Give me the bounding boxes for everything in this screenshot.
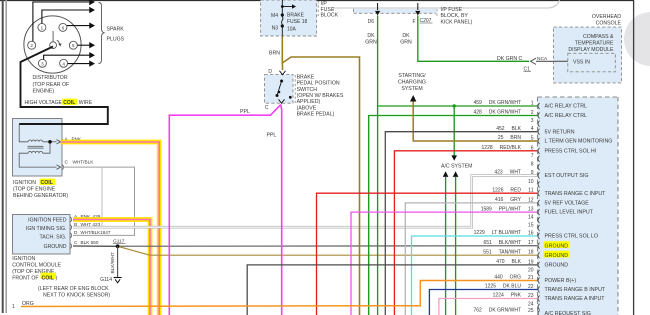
spark plug wire from terminal 1 xyxy=(42,10,91,23)
wire PPL left branch xyxy=(169,105,280,315)
coil junction dot A xyxy=(48,140,52,144)
spark plug wire from terminal 5 xyxy=(77,44,91,46)
svg-text:A/C REQUEST SIG: A/C REQUEST SIG xyxy=(545,311,591,315)
svg-text:WHT/BLK: WHT/BLK xyxy=(73,160,95,165)
svg-text:762 DK GRN/WHT: 762 DK GRN/WHT xyxy=(473,308,521,314)
svg-text:6: 6 xyxy=(531,145,534,151)
svg-text:BLOCK: BLOCK xyxy=(321,12,339,18)
svg-text:TACH. SIG.: TACH. SIG. xyxy=(40,235,67,241)
ignition coil box xyxy=(13,119,63,177)
PCM connector box xyxy=(538,97,619,315)
pin D6 arrow down xyxy=(377,3,379,10)
spark plug terminal 2 xyxy=(28,41,36,49)
spark plug terminal 5 xyxy=(69,41,77,49)
svg-text:A/C RELAY CTRL: A/C RELAY CTRL xyxy=(545,113,588,119)
svg-text:VSS IN: VSS IN xyxy=(573,59,590,65)
svg-text:CONTROL MODULE: CONTROL MODULE xyxy=(12,262,61,268)
svg-text:DK GRN: DK GRN xyxy=(497,56,517,62)
spark plug terminal 6 xyxy=(59,23,67,31)
coil core xyxy=(28,145,44,147)
svg-text:BLOCK, BY: BLOCK, BY xyxy=(441,13,469,19)
wire DK BLU 1225 row22 xyxy=(429,290,537,315)
wire BLK 470 row19 xyxy=(247,265,537,315)
wire BRN branch to right xyxy=(282,57,359,315)
svg-text:3: 3 xyxy=(531,118,534,124)
spark plug wire from terminal 2 xyxy=(33,2,91,41)
svg-text:CHARGING: CHARGING xyxy=(398,79,426,85)
distributor rotor center xyxy=(50,42,57,49)
wire ORG 440 row21 xyxy=(21,281,538,307)
svg-text:428 DK GRN/WHT: 428 DK GRN/WHT xyxy=(473,110,521,116)
A/C up arrow wires xyxy=(443,171,449,177)
svg-text:21: 21 xyxy=(528,275,534,281)
svg-text:TRANS RANGE A INPUT: TRANS RANGE A INPUT xyxy=(545,296,606,302)
svg-text:PPL: PPL xyxy=(240,109,250,115)
svg-text:25 BRN: 25 BRN xyxy=(498,135,521,141)
svg-text:1229 LT BLU/WHT: 1229 LT BLU/WHT xyxy=(474,230,521,236)
grey corner blob (UI) xyxy=(624,12,650,66)
svg-text:PRESS CTRL SOL HI: PRESS CTRL SOL HI xyxy=(545,148,597,154)
coil primary winding xyxy=(28,140,42,142)
svg-text:F: F xyxy=(412,19,415,25)
wire DK GRN/WHT row2 xyxy=(369,116,538,315)
left UI bar grey xyxy=(5,0,7,313)
svg-text:1: 1 xyxy=(531,101,534,107)
svg-text:PRESS CTRL SOL LO: PRESS CTRL SOL LO xyxy=(545,234,598,240)
svg-text:TRANS RANGE C INPUT: TRANS RANGE C INPUT xyxy=(545,191,607,197)
svg-text:1589 PPL/WHT: 1589 PPL/WHT xyxy=(481,206,521,212)
wire PPL down branch xyxy=(280,105,283,315)
svg-text:COIL: COIL xyxy=(63,100,75,106)
wire WHT/BLK 1847 coil-to-module xyxy=(61,167,135,235)
svg-text:L TERM GEN MONITORING: L TERM GEN MONITORING xyxy=(545,139,613,145)
svg-text:20: 20 xyxy=(528,268,534,274)
svg-text:SYSTEM: SYSTEM xyxy=(401,86,422,92)
svg-text:452 BLK: 452 BLK xyxy=(496,126,521,132)
svg-text:5: 5 xyxy=(531,136,534,142)
wire LT BLU/WHT 1229 row16 xyxy=(412,236,538,315)
svg-text:2: 2 xyxy=(531,110,534,116)
svg-text:NEXT TO KNOCK SENSOR): NEXT TO KNOCK SENSOR) xyxy=(43,292,110,298)
svg-text:440 ORG: 440 ORG xyxy=(494,275,521,281)
svg-text:D6: D6 xyxy=(368,19,375,25)
svg-text:G114: G114 xyxy=(100,277,112,283)
wire BLK 550 xyxy=(73,245,118,247)
svg-text:1847: 1847 xyxy=(100,230,111,235)
svg-text:APPLIED): APPLIED) xyxy=(297,99,321,105)
svg-text:551 TAN/WHT: 551 TAN/WHT xyxy=(483,249,521,255)
svg-text:BRAKE PEDAL): BRAKE PEDAL) xyxy=(297,112,335,118)
svg-text:COIL: COIL xyxy=(41,180,54,186)
wire PNK from coil A xyxy=(61,142,160,315)
svg-text:IGNITION: IGNITION xyxy=(12,256,35,262)
ground symbol G114 xyxy=(114,277,122,279)
svg-text:N3: N3 xyxy=(272,26,279,32)
left UI bar dark xyxy=(2,0,4,313)
module pin bracket xyxy=(71,217,72,222)
wire GRY 416 row12 xyxy=(405,203,537,315)
arrow up to starting system xyxy=(410,95,416,102)
pin C arrow xyxy=(279,99,285,103)
svg-text:(TOP REAR OF: (TOP REAR OF xyxy=(33,82,70,88)
svg-text:10A: 10A xyxy=(287,27,297,33)
fuse wire arrow top xyxy=(282,6,292,8)
svg-text:651 BLK/WHT: 651 BLK/WHT xyxy=(483,240,521,246)
I/P fuse block box xyxy=(261,0,317,36)
svg-text:OVERHEAD: OVERHEAD xyxy=(592,14,621,20)
wire TAN/WHT 551 to pin 18 xyxy=(118,246,538,255)
svg-text:M4: M4 xyxy=(271,13,278,19)
wire PNK 1224 row23 xyxy=(439,299,538,315)
svg-text:(LEFT REAR OF ENG BLOCK: (LEFT REAR OF ENG BLOCK xyxy=(38,286,109,292)
svg-text:WHT/BLK: WHT/BLK xyxy=(81,230,101,235)
svg-text:15: 15 xyxy=(528,223,534,229)
distributor body circle xyxy=(24,16,81,73)
svg-text:C: C xyxy=(519,56,523,62)
svg-text:CONSOLE: CONSOLE xyxy=(596,20,622,26)
I/P fuse block by kick panel box xyxy=(354,9,437,14)
brake switch box xyxy=(265,75,294,104)
svg-text:3: 3 xyxy=(41,61,44,66)
svg-text:1224 PNK: 1224 PNK xyxy=(493,293,522,299)
junction dot G117 xyxy=(116,244,120,248)
svg-text:IGNITION: IGNITION xyxy=(13,180,36,186)
svg-text:18: 18 xyxy=(528,250,534,256)
svg-text:1: 1 xyxy=(41,25,44,30)
svg-text:459 DK GRN/WHT: 459 DK GRN/WHT xyxy=(473,100,521,106)
svg-text:BRAKE: BRAKE xyxy=(287,13,305,19)
coil pin C bracket xyxy=(63,165,64,170)
svg-text:GRN: GRN xyxy=(365,40,377,46)
svg-text:SPARK: SPARK xyxy=(107,27,125,33)
pin D arrow xyxy=(280,71,286,75)
stub down to A/C SYSTEM xyxy=(453,106,455,156)
svg-text:12: 12 xyxy=(528,197,534,203)
wire WHT 423 module-to-pin9 xyxy=(73,176,538,228)
spark plug wire from terminal 3 xyxy=(44,55,91,59)
wire RED 1226 row11 xyxy=(317,193,538,315)
high voltage coil wire xyxy=(19,47,108,125)
svg-text:ORG: ORG xyxy=(22,301,34,307)
svg-text:GROUND: GROUND xyxy=(545,253,569,259)
svg-text:24: 24 xyxy=(528,301,534,307)
svg-text:PEDAL POSITION: PEDAL POSITION xyxy=(297,81,340,87)
svg-text:DK: DK xyxy=(402,33,410,39)
svg-text:TEMPERATURE: TEMPERATURE xyxy=(575,41,614,47)
svg-text:GROUND: GROUND xyxy=(545,243,569,249)
svg-text:A/C RELAY CTRL: A/C RELAY CTRL xyxy=(545,104,588,110)
svg-text:EST OUTPUT SIG: EST OUTPUT SIG xyxy=(545,173,589,179)
coil internal wires xyxy=(43,142,50,153)
ignition control module box xyxy=(13,215,71,255)
svg-text:FUSE 18: FUSE 18 xyxy=(287,19,308,25)
wire BLK 452 row4 xyxy=(385,132,537,315)
svg-text:FUEL LEVEL INPUT: FUEL LEVEL INPUT xyxy=(545,210,594,216)
svg-text:2: 2 xyxy=(30,43,33,48)
svg-text:POWER B(+): POWER B(+) xyxy=(545,278,577,284)
svg-text:4: 4 xyxy=(62,61,65,66)
svg-text:8: 8 xyxy=(531,162,534,168)
svg-text:SWITCH: SWITCH xyxy=(297,87,318,93)
svg-text:5: 5 xyxy=(72,43,75,48)
svg-text:DISTRIBUTOR: DISTRIBUTOR xyxy=(33,75,68,81)
module pin bracket xyxy=(71,225,72,230)
svg-text:): ) xyxy=(56,276,58,282)
svg-text:7: 7 xyxy=(531,153,534,159)
svg-text:416 GRY: 416 GRY xyxy=(495,197,522,203)
spark plug wire from terminal 6 xyxy=(67,25,91,27)
svg-text:(TOP OF ENGINE: (TOP OF ENGINE xyxy=(13,187,56,193)
svg-text:25: 25 xyxy=(528,308,534,314)
fuse element xyxy=(281,0,283,17)
svg-text:IGN TIMING SIG.: IGN TIMING SIG. xyxy=(26,226,67,232)
wire PPL/WHT 1589 row13 xyxy=(351,212,538,315)
svg-text:423 WHT: 423 WHT xyxy=(494,170,521,176)
module pin bracket xyxy=(71,233,72,238)
label bracket xyxy=(436,9,438,17)
svg-text:BLK 550: BLK 550 xyxy=(81,240,99,245)
wire DK GRN F to VSS xyxy=(418,16,529,62)
stub white wire xyxy=(101,167,103,227)
VSS IN inner box xyxy=(568,53,616,72)
svg-text:WIRE: WIRE xyxy=(79,100,93,106)
wire PNK 439 from module A xyxy=(73,220,150,315)
svg-text:5V RETURN: 5V RETURN xyxy=(545,129,575,135)
svg-text:GROUND: GROUND xyxy=(545,263,569,269)
svg-text:17: 17 xyxy=(528,240,534,246)
wire RED/BLK 1228 row6 xyxy=(394,151,537,315)
compass module outer box xyxy=(554,27,622,83)
svg-text:A/C SYSTEM: A/C SYSTEM xyxy=(441,163,472,169)
svg-text:GRN: GRN xyxy=(400,40,412,46)
svg-text:BLK/WHT: BLK/WHT xyxy=(110,252,116,273)
svg-text:(ABOVE: (ABOVE xyxy=(297,105,317,111)
svg-text:G117: G117 xyxy=(113,239,125,245)
svg-text:COMPASS &: COMPASS & xyxy=(583,34,614,40)
module pin bracket xyxy=(71,244,72,249)
svg-text:1226 RED: 1226 RED xyxy=(492,187,521,193)
svg-text:HIGH VOLTAGE: HIGH VOLTAGE xyxy=(25,100,63,106)
switch contacts xyxy=(280,80,283,83)
svg-text:6: 6 xyxy=(62,25,65,30)
label HIGH VOLTAGE COIL WIRE (COIL highlighted) xyxy=(62,99,77,105)
svg-text:22: 22 xyxy=(528,284,534,290)
svg-text:(OPEN W/ BRAKES: (OPEN W/ BRAKES xyxy=(297,93,344,99)
svg-text:14: 14 xyxy=(528,215,534,221)
UI toolbar bottom edge xyxy=(331,0,560,8)
wire BLK/WHT 651 to pin 17 xyxy=(118,245,538,248)
svg-text:FRONT OF: FRONT OF xyxy=(12,276,38,282)
svg-text:COIL: COIL xyxy=(42,276,55,282)
coil secondary winding xyxy=(28,151,42,153)
svg-text:D: D xyxy=(268,69,272,75)
svg-text:KICK PANEL): KICK PANEL) xyxy=(441,19,473,25)
svg-text:23: 23 xyxy=(528,293,534,299)
svg-text:BRAKE: BRAKE xyxy=(297,74,315,80)
svg-text:13: 13 xyxy=(528,207,534,213)
svg-text:ENGINE): ENGINE) xyxy=(33,88,55,94)
svg-text:DK: DK xyxy=(367,33,375,39)
svg-text:C: C xyxy=(265,105,269,111)
svg-text:1228 RED/BLK: 1228 RED/BLK xyxy=(482,145,522,151)
spark plug terminal 3 xyxy=(38,59,46,67)
coil pin A bracket xyxy=(63,139,64,144)
svg-text:BEHIND GENERATOR): BEHIND GENERATOR) xyxy=(13,193,68,199)
coil pin C arrow xyxy=(57,165,61,169)
wire BRN fuse-to-switch xyxy=(281,36,283,70)
wire BRN 25 xyxy=(413,102,537,142)
svg-text:9: 9 xyxy=(531,170,534,176)
spark plug wire from terminal 4 xyxy=(68,63,91,65)
svg-text:16: 16 xyxy=(528,231,534,237)
svg-text:470 BLK: 470 BLK xyxy=(496,259,521,265)
pin F arrow down xyxy=(417,3,419,10)
svg-text:10: 10 xyxy=(528,179,534,185)
spark plug terminal 1 xyxy=(38,23,46,31)
svg-text:DISPLAY MODULE: DISPLAY MODULE xyxy=(568,47,614,53)
spark plug terminal 4 xyxy=(60,59,68,67)
svg-text:GROUND: GROUND xyxy=(43,244,66,250)
label IGNITION COIL (COIL highlighted) xyxy=(40,179,56,185)
wire DK GRN/WHT row1 xyxy=(378,105,538,107)
NCA connector chevron xyxy=(531,58,537,64)
right page border xyxy=(633,0,635,315)
svg-text:19: 19 xyxy=(528,259,534,265)
svg-text:I/P FUSE: I/P FUSE xyxy=(441,7,463,13)
svg-text:11: 11 xyxy=(528,188,533,194)
svg-text:IGNITION FEED: IGNITION FEED xyxy=(28,218,67,224)
svg-text:1: 1 xyxy=(12,304,15,310)
wire BLK/WHT to ground G114 xyxy=(117,246,119,277)
wire to VSS IN xyxy=(536,60,568,62)
svg-text:BRN: BRN xyxy=(269,51,280,57)
svg-text:1225 DK BLU: 1225 DK BLU xyxy=(485,284,522,290)
svg-text:5V REF VOLTAGE: 5V REF VOLTAGE xyxy=(545,201,590,207)
I/P FUSE BLOCK bracket xyxy=(317,1,319,16)
coil pin A arrow xyxy=(57,140,61,144)
spark plugs brace xyxy=(99,3,105,64)
switch label bracket xyxy=(294,75,296,103)
wire DK GRN D6 down xyxy=(377,16,379,315)
svg-text:TRANS RANGE B INPUT: TRANS RANGE B INPUT xyxy=(545,287,606,293)
svg-text:STARTING/: STARTING/ xyxy=(398,73,426,79)
top border xyxy=(0,0,634,2)
svg-text:PPL: PPL xyxy=(267,133,277,139)
svg-text:4: 4 xyxy=(531,126,534,132)
svg-text:PLUGS: PLUGS xyxy=(107,37,125,43)
